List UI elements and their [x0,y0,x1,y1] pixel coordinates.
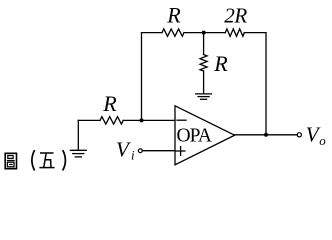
glyph ） full-width paren [63,150,66,170]
wire left ground drop [77,120,79,150]
wire right vertical (feedback to output) [265,33,267,135]
wire input horizontal left segment [78,119,100,121]
svg-text:o: o [319,133,326,148]
ground (middle, below shunt R) [196,94,212,99]
junction node dot (inverting input / feedback) [140,118,144,122]
op-amp plus sign [176,147,185,156]
wire middle vertical lower [203,71,205,94]
resistor 2R [225,29,244,36]
op-amp U1 triangle [175,106,235,165]
wire top horizontal left segment [142,32,163,34]
glyph 五 [39,153,54,168]
wire between R and 2R [184,32,225,34]
svg-text:OPA: OPA [177,125,212,146]
label 圖(五) figure caption [5,150,65,170]
svg-text:2R: 2R [224,4,247,28]
junction node dot (output / feedback) [264,133,268,137]
terminal Vo circle [297,133,301,137]
wire middle vertical upper [203,33,205,55]
junction node dot (R / 2R / shunt) [202,31,206,35]
label Vo [306,122,327,148]
wire input horizontal right segment to op-amp [123,119,175,121]
label Vi [116,137,135,162]
wire output [234,134,297,136]
wire top horizontal right segment [244,32,266,34]
wire top-left vertical (feedback left leg) [141,33,143,121]
svg-text:V: V [116,137,131,161]
glyph （ full-width paren [32,150,35,170]
svg-text:i: i [131,148,135,163]
svg-text:R: R [166,3,181,28]
resistor R shunt (vertical) [200,55,207,72]
glyph 圖 [5,153,16,168]
op-amp minus sign [177,119,186,121]
wire non-inverting input from Vi terminal [142,150,175,152]
svg-text:R: R [213,51,228,76]
resistor R input [100,117,123,124]
terminal Vi circle [138,149,142,153]
svg-text:R: R [102,91,117,116]
ground (left, input reference) [70,150,86,157]
resistor R feedback (top) [162,29,184,36]
